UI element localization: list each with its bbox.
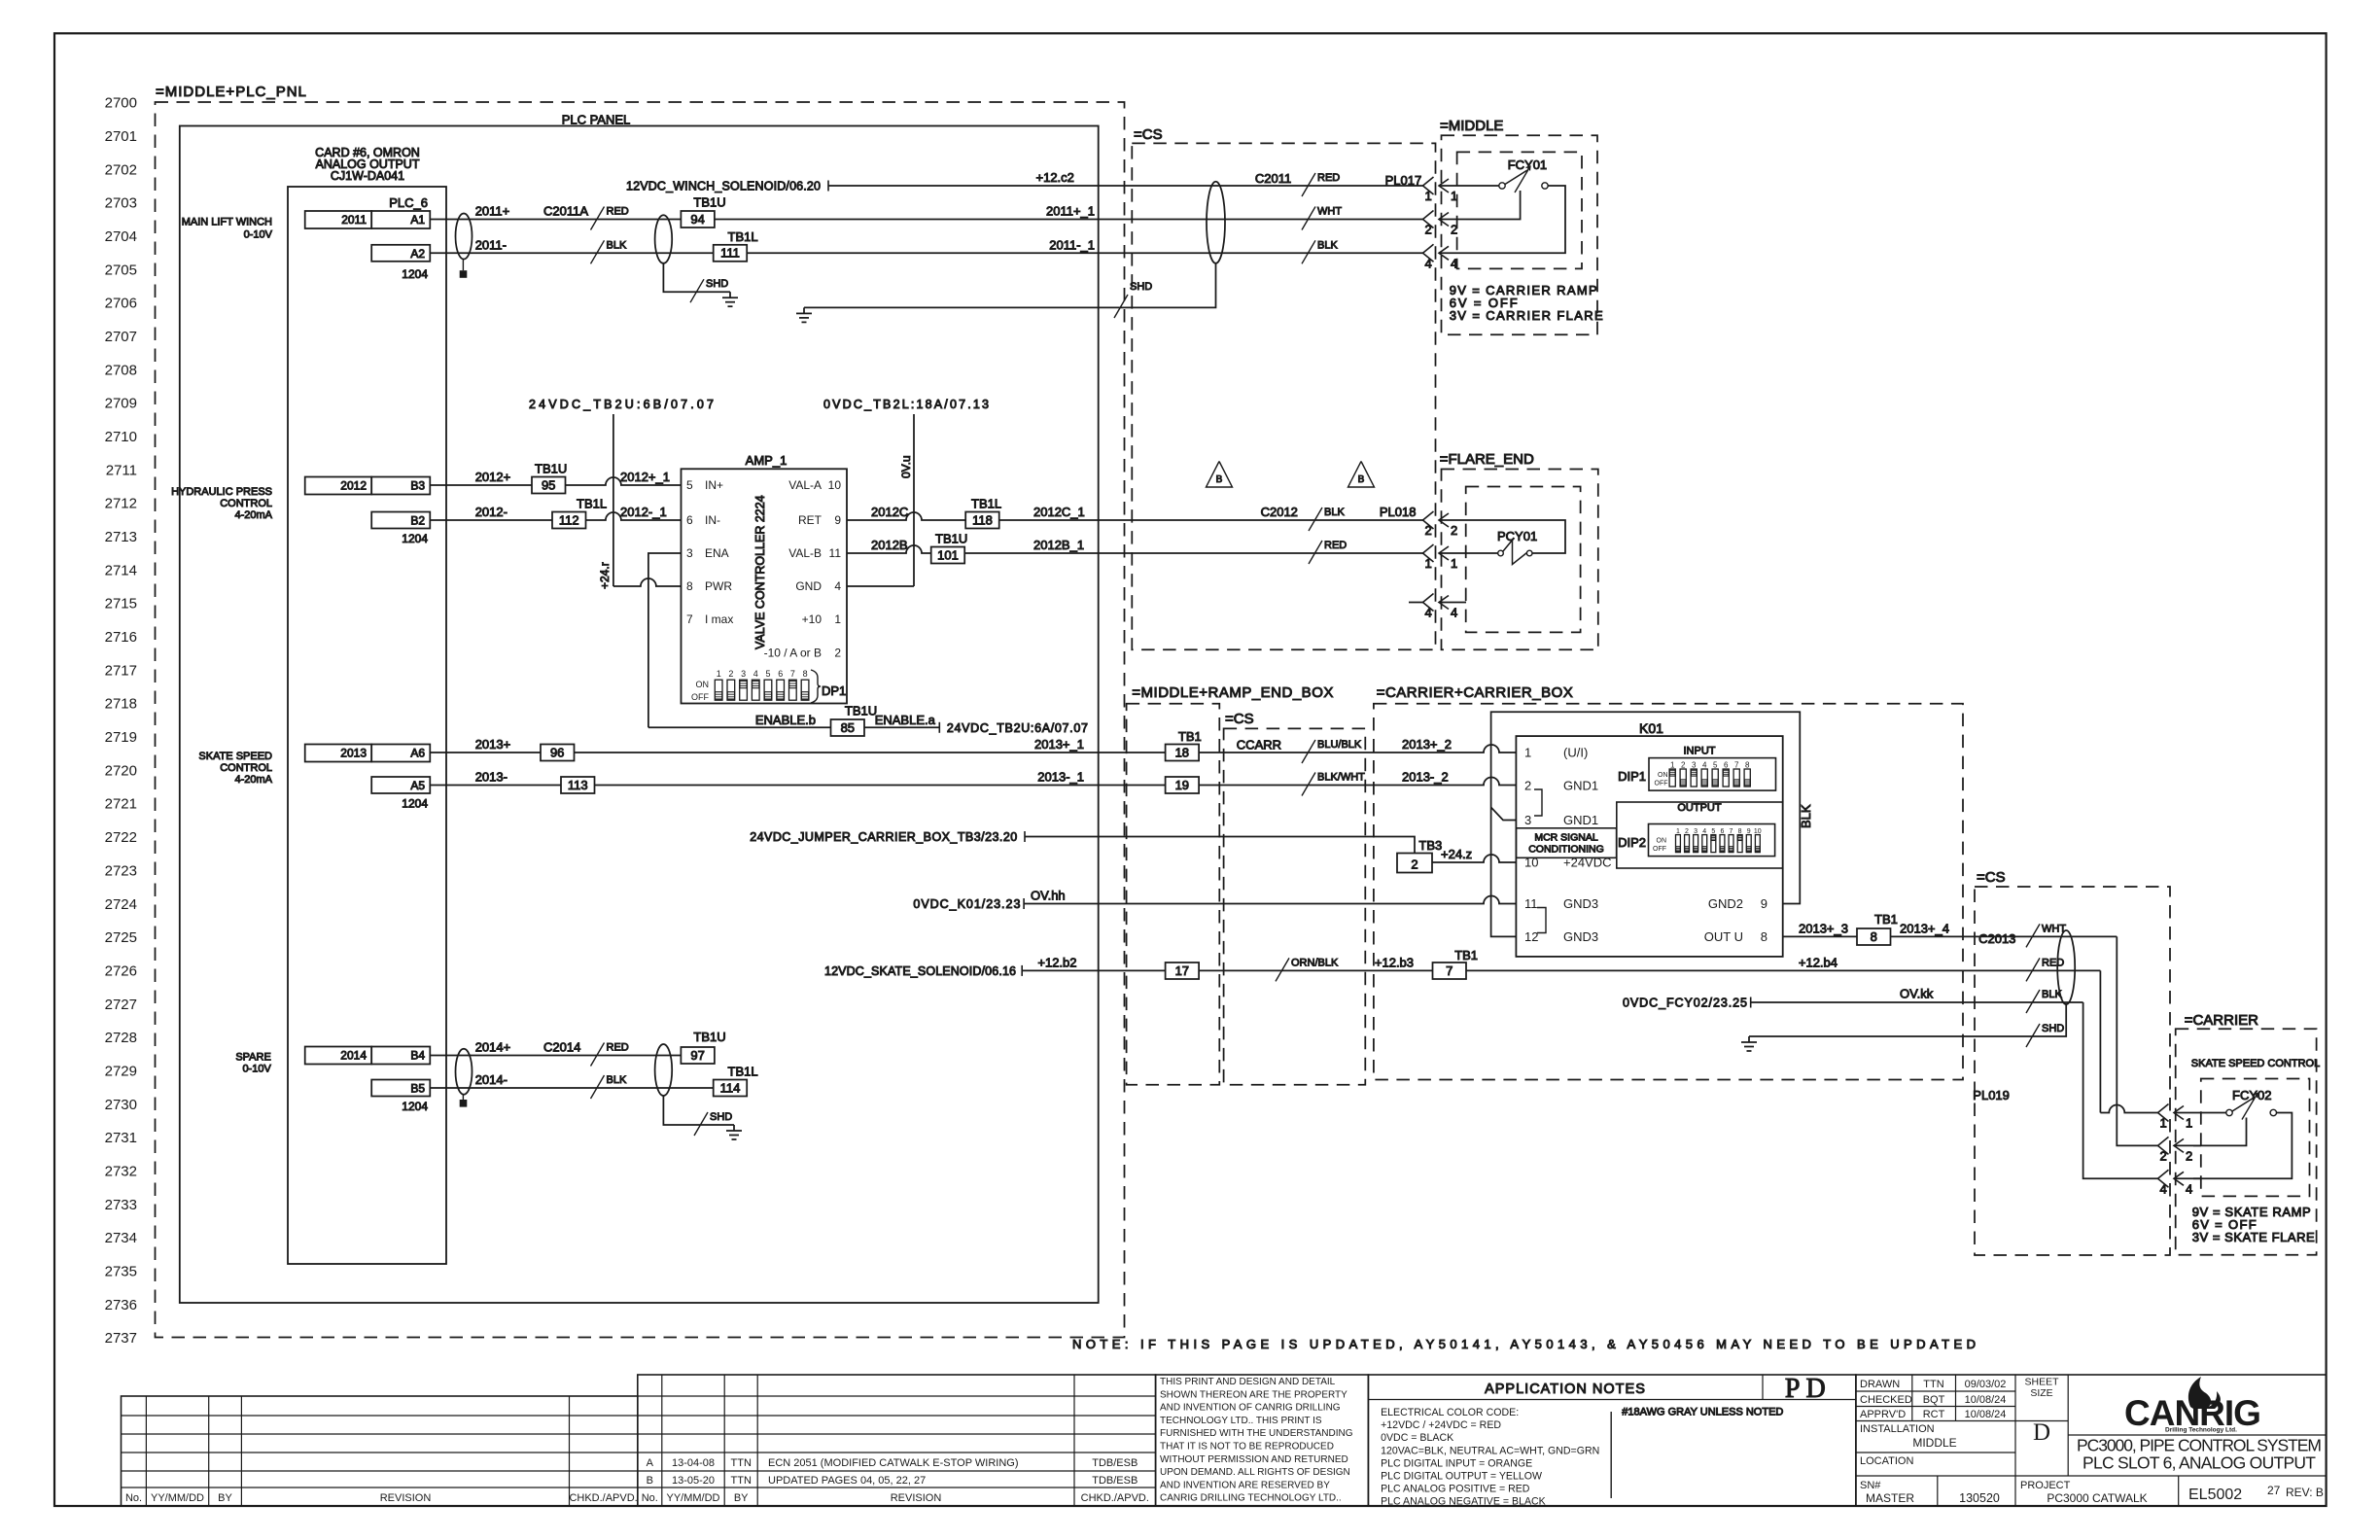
shield drain of C2011 to ground — [804, 263, 1216, 308]
svg-text:ON: ON — [696, 680, 710, 689]
cable oval C2011A at card — [456, 214, 472, 260]
terminal TB1 19 — [1166, 777, 1200, 793]
svg-text:4: 4 — [2186, 1181, 2192, 1196]
svg-text:SHD: SHD — [710, 1111, 732, 1123]
PLC pin box B5 — [371, 1080, 430, 1097]
wire OUT U 2013+_3 to TB1 8 — [1783, 935, 2117, 937]
svg-text:2013-_2: 2013-_2 — [1402, 770, 1449, 785]
dashed box =CARRIER — [2176, 1029, 2317, 1255]
svg-text:2728: 2728 — [105, 1030, 137, 1046]
svg-text:4-20mA: 4-20mA — [234, 774, 272, 786]
svg-text:1: 1 — [717, 669, 721, 679]
BLK branch to pin3 — [1491, 807, 1517, 820]
svg-text:+12.c2: +12.c2 — [1036, 170, 1074, 185]
svg-text:SKATE SPEED CONTROL: SKATE SPEED CONTROL — [2191, 1058, 2320, 1069]
svg-text:18: 18 — [1175, 745, 1189, 759]
svg-text:3: 3 — [1524, 813, 1531, 827]
PLC pin box A6 — [371, 745, 430, 762]
colour tag SHD on C2013 — [2026, 1024, 2040, 1047]
svg-text:PC3000 CATWALK: PC3000 CATWALK — [2047, 1491, 2147, 1505]
svg-text:2711: 2711 — [106, 462, 137, 478]
svg-text:1: 1 — [1425, 189, 1432, 203]
svg-text:1: 1 — [1451, 189, 1457, 203]
svg-text:RED: RED — [607, 1042, 629, 1054]
svg-text:BLK: BLK — [1799, 804, 1813, 828]
svg-text:TB1U: TB1U — [693, 1030, 725, 1044]
svg-text:#18AWG GRAY UNLESS NOTED: #18AWG GRAY UNLESS NOTED — [1622, 1407, 1783, 1418]
svg-text:19: 19 — [1175, 778, 1189, 792]
svg-text:OFF: OFF — [691, 692, 709, 702]
svg-text:SIZE: SIZE — [2030, 1387, 2052, 1399]
svg-text:95: 95 — [542, 477, 555, 492]
svg-text:INPUT: INPUT — [1684, 746, 1716, 757]
svg-text:PROJECT: PROJECT — [2020, 1480, 2071, 1491]
svg-text:PWR: PWR — [705, 579, 732, 593]
svg-text:OV.hh: OV.hh — [1031, 889, 1066, 903]
svg-text:2732: 2732 — [105, 1164, 137, 1180]
svg-text:2013+_1: 2013+_1 — [1034, 737, 1084, 752]
svg-text:2012+: 2012+ — [475, 470, 511, 484]
svg-text:TDB/ESB: TDB/ESB — [1092, 1475, 1137, 1487]
svg-text:INSTALLATION: INSTALLATION — [1860, 1423, 1935, 1435]
svg-text:5: 5 — [686, 478, 693, 492]
wire 2012- B2 to AMP IN- — [430, 512, 681, 520]
svg-text:101: 101 — [937, 547, 959, 562]
svg-text:5: 5 — [1713, 761, 1718, 770]
wire RED down to PL019 pin1 — [2099, 970, 2101, 1112]
dashed box =MIDDLE+PLC_PNL — [156, 102, 1125, 1338]
svg-text:2702: 2702 — [105, 161, 137, 178]
svg-text:2012B: 2012B — [871, 538, 908, 552]
colour tag BLK on C2011A — [591, 240, 605, 263]
svg-text:GND1: GND1 — [1563, 779, 1598, 793]
svg-text:MASTER: MASTER — [1866, 1491, 1914, 1505]
svg-text:3: 3 — [1692, 761, 1697, 770]
svg-text:2013+_2: 2013+_2 — [1402, 737, 1452, 752]
svg-text:2736: 2736 — [105, 1297, 137, 1313]
svg-text:ORN/BLK: ORN/BLK — [1291, 957, 1339, 968]
wire FCY01 throw to pin4 — [1466, 186, 1565, 253]
svg-text:2718: 2718 — [105, 696, 137, 713]
svg-text:THIS PRINT AND DESIGN AND DETA: THIS PRINT AND DESIGN AND DETAIL — [1160, 1377, 1336, 1387]
PLC pin box B3 — [371, 477, 430, 495]
svg-text:No.: No. — [642, 1492, 658, 1504]
dashed box =CS right — [1975, 887, 2170, 1255]
svg-text:2: 2 — [2186, 1148, 2192, 1163]
svg-text:ON: ON — [1657, 837, 1667, 844]
svg-text:=CS: =CS — [1134, 126, 1163, 143]
svg-text:GND1: GND1 — [1563, 813, 1598, 827]
svg-text:(U/I): (U/I) — [1563, 746, 1588, 760]
svg-text:1: 1 — [1524, 746, 1531, 760]
svg-text:A2: A2 — [410, 247, 425, 261]
svg-text:TB1U: TB1U — [535, 462, 567, 476]
svg-text:MCR SIGNAL: MCR SIGNAL — [1534, 832, 1598, 844]
svg-text:2722: 2722 — [105, 829, 137, 846]
svg-text:2: 2 — [2160, 1148, 2167, 1163]
svg-text:CHECKED: CHECKED — [1860, 1394, 1912, 1406]
svg-text:2708: 2708 — [105, 362, 137, 378]
svg-text:TTN: TTN — [1923, 1379, 1943, 1390]
colour tag RED on C2014 — [591, 1043, 605, 1067]
svg-text:2706: 2706 — [105, 296, 137, 312]
dashed box =CS upper — [1132, 143, 1435, 649]
svg-text:AND INVENTION OF CANRIG DRILLI: AND INVENTION OF CANRIG DRILLING — [1160, 1403, 1341, 1414]
svg-text:2714: 2714 — [105, 562, 137, 578]
wire ENABLE.b to TB1U 85 — [648, 726, 831, 728]
terminal 113 — [561, 777, 595, 793]
svg-text:DRAWN: DRAWN — [1860, 1379, 1900, 1390]
svg-text:BY: BY — [734, 1492, 749, 1504]
svg-text:2012-_1: 2012-_1 — [620, 505, 667, 519]
svg-text:12: 12 — [1524, 929, 1538, 944]
colour tag BLU/BLK — [1302, 740, 1315, 763]
svg-text:PLC ANALOG POSITIVE = RED: PLC ANALOG POSITIVE = RED — [1381, 1484, 1530, 1495]
svg-text:IN+: IN+ — [705, 478, 723, 492]
svg-text:HYDRAULIC PRESS: HYDRAULIC PRESS — [171, 486, 272, 498]
svg-text:1: 1 — [2186, 1116, 2192, 1131]
warning triangle B left — [1207, 462, 1233, 488]
K01 INPUT dip block — [1649, 758, 1776, 791]
svg-text:2012C: 2012C — [871, 505, 908, 519]
shield wire SHD to panel ground — [663, 263, 730, 292]
wire 24VDC jumper to TB3 — [1025, 837, 1415, 854]
svg-text:118: 118 — [972, 512, 993, 527]
wire FCY01 wiper to pin2 — [1466, 191, 1521, 220]
svg-text:AND INVENTION ARE RESERVED BY: AND INVENTION ARE RESERVED BY — [1160, 1480, 1330, 1490]
svg-text:8: 8 — [686, 579, 693, 593]
wire FCY02 wiper to pin2 — [2193, 1118, 2247, 1146]
wire PWR from +24.r — [613, 578, 682, 586]
svg-text:2715: 2715 — [105, 596, 137, 612]
ground symbol for C2013 shield — [1748, 1036, 1750, 1042]
terminal 96 — [541, 745, 575, 761]
svg-text:SPARE: SPARE — [235, 1052, 270, 1064]
svg-text:TECHNOLOGY LTD.. THIS PRINT IS: TECHNOLOGY LTD.. THIS PRINT IS — [1160, 1416, 1322, 1426]
vertical +24.r supply — [612, 414, 614, 586]
dashed box PCY01 enclosure — [1466, 487, 1581, 633]
PLC output channel box 2012 — [305, 477, 372, 495]
svg-text:2724: 2724 — [105, 896, 137, 913]
wire 2013+ A6 to K01 pin1 — [430, 745, 1516, 752]
svg-text:4: 4 — [2160, 1181, 2167, 1196]
svg-text:1: 1 — [1451, 556, 1457, 571]
svg-text:1: 1 — [2160, 1116, 2167, 1131]
svg-text:2014-: 2014- — [475, 1072, 507, 1087]
svg-text:OUTPUT: OUTPUT — [1677, 802, 1722, 814]
svg-text:4: 4 — [1425, 606, 1432, 620]
svg-text:2013+: 2013+ — [475, 737, 511, 752]
svg-text:TB1: TB1 — [1454, 948, 1478, 962]
svg-text:PLC SLOT 6, ANALOG OUTPUT: PLC SLOT 6, ANALOG OUTPUT — [2082, 1453, 2316, 1473]
PLC output channel box 2013 — [305, 745, 372, 762]
svg-text:CONDITIONING: CONDITIONING — [1528, 844, 1604, 856]
svg-text:24VDC_JUMPER_CARRIER_BOX_TB3/2: 24VDC_JUMPER_CARRIER_BOX_TB3/23.20 — [750, 830, 1017, 844]
PLC pin box A5 — [371, 777, 430, 793]
svg-text:EL5002: EL5002 — [2188, 1487, 2242, 1503]
svg-text:+24.r: +24.r — [598, 562, 612, 589]
svg-text:CONTROL: CONTROL — [220, 498, 272, 509]
svg-text:C2012: C2012 — [1261, 505, 1298, 519]
svg-text:11: 11 — [829, 546, 842, 560]
svg-text:DIP2: DIP2 — [1618, 835, 1646, 850]
electrical color code notes — [1381, 1407, 1599, 1508]
svg-text:2705: 2705 — [105, 262, 137, 278]
wire +12.b2 +12.b3 +12.b4 to C2013 — [1022, 969, 2100, 971]
svg-text:B5: B5 — [410, 1082, 425, 1096]
svg-text:TTN: TTN — [731, 1475, 752, 1487]
svg-text:VALVE CONTROLLER 2224: VALVE CONTROLLER 2224 — [753, 495, 767, 649]
svg-text:13-05-20: 13-05-20 — [672, 1475, 715, 1487]
svg-text:120VAC=BLK, NEUTRAL AC=WHT,: 120VAC=BLK, NEUTRAL AC=WHT, GND=GRN — [1381, 1445, 1599, 1456]
svg-text:2013+_3: 2013+_3 — [1799, 921, 1848, 935]
svg-text:09/03/02: 09/03/02 — [1965, 1379, 2007, 1390]
svg-text:APPLICATION NOTES: APPLICATION NOTES — [1485, 1382, 1646, 1397]
svg-text:BLK: BLK — [1324, 507, 1345, 518]
svg-text:2: 2 — [1451, 523, 1457, 538]
svg-text:CANRIG DRILLING TECHNOLOGY LTD: CANRIG DRILLING TECHNOLOGY LTD.. — [1160, 1493, 1342, 1504]
svg-text:IN-: IN- — [705, 513, 720, 527]
svg-text:2704: 2704 — [105, 228, 137, 245]
svg-text:2012+_1: 2012+_1 — [620, 470, 670, 484]
svg-text:No.: No. — [125, 1492, 142, 1504]
svg-text:4: 4 — [1451, 606, 1457, 620]
svg-text:GND3: GND3 — [1563, 929, 1598, 944]
svg-text:MIDDLE: MIDDLE — [1912, 1436, 1956, 1450]
svg-text:0VDC = BLACK: 0VDC = BLACK — [1381, 1432, 1453, 1444]
PLC output channel box 2011 — [305, 211, 372, 228]
PLC pin box B2 — [371, 512, 430, 529]
terminal 17 — [1166, 962, 1200, 979]
cable oval C2014 at card — [456, 1049, 472, 1095]
svg-text:PL017: PL017 — [1385, 173, 1422, 188]
svg-text:WITHOUT PERMISSION AND RETURNE: WITHOUT PERMISSION AND RETURNED — [1160, 1454, 1348, 1465]
dashed box =CS middle — [1224, 728, 1366, 1084]
svg-text:=CS: =CS — [1977, 869, 2006, 886]
svg-text:BY: BY — [218, 1492, 232, 1504]
svg-text:96: 96 — [550, 745, 564, 759]
svg-text:2707: 2707 — [105, 329, 137, 345]
svg-text:2012: 2012 — [340, 479, 367, 493]
wire VAL-B 2012B to PL018 pin1 — [847, 545, 1423, 553]
svg-text:2734: 2734 — [105, 1230, 137, 1246]
ground symbol row 2014 — [733, 1125, 735, 1131]
svg-text:PLC DIGITAL INPUT = ORANGE: PLC DIGITAL INPUT = ORANGE — [1381, 1457, 1532, 1469]
svg-text:APPRV'D: APPRV'D — [1860, 1409, 1906, 1420]
svg-text:+12.b3: +12.b3 — [1375, 955, 1414, 969]
svg-text:2: 2 — [834, 646, 841, 659]
svg-text:8: 8 — [1761, 929, 1767, 944]
wire 2011- from A2 to PL017 pin4 — [430, 252, 1422, 254]
revision table left — [122, 1396, 638, 1506]
svg-text:7: 7 — [790, 669, 795, 679]
svg-text:RED: RED — [1324, 540, 1347, 551]
svg-text:BLK: BLK — [607, 239, 627, 251]
svg-text:PCY01: PCY01 — [1497, 529, 1537, 543]
line number column 2700-2737 — [105, 95, 137, 1347]
svg-text:WHT: WHT — [2042, 923, 2066, 934]
svg-text:7: 7 — [1446, 963, 1452, 978]
svg-text:4: 4 — [834, 579, 841, 593]
svg-text:REVISION: REVISION — [891, 1492, 942, 1504]
application notes box — [1368, 1375, 1856, 1506]
svg-text:ENABLE.a: ENABLE.a — [875, 713, 936, 727]
svg-text:10/08/24: 10/08/24 — [1965, 1394, 2007, 1406]
svg-text:ECN 2051 (MODIFIED CATWALK E-S: ECN 2051 (MODIFIED CATWALK E-STOP WIRING… — [768, 1457, 1019, 1469]
svg-text:2717: 2717 — [105, 662, 137, 679]
svg-text:=FLARE_END: =FLARE_END — [1440, 451, 1534, 468]
svg-text:114: 114 — [720, 1080, 741, 1095]
colour tag BLK/WHT — [1302, 773, 1315, 796]
svg-text:RED: RED — [607, 206, 629, 218]
svg-text:BLK: BLK — [1317, 239, 1338, 251]
wire PCY01 to pin2 loop — [1466, 520, 1565, 553]
cable oval at TB1U 97 — [655, 1044, 673, 1096]
svg-text:0VDC_TB2L:18A/07.13: 0VDC_TB2L:18A/07.13 — [823, 398, 989, 411]
svg-text:BLK: BLK — [607, 1074, 627, 1086]
svg-text:0VDC_K01/23.23: 0VDC_K01/23.23 — [913, 897, 1020, 911]
svg-text:2729: 2729 — [105, 1064, 137, 1080]
svg-text:GND2: GND2 — [1708, 896, 1743, 911]
svg-text:+12VDC / +24VDC = RED: +12VDC / +24VDC = RED — [1381, 1419, 1501, 1431]
svg-text:9: 9 — [1761, 896, 1767, 911]
svg-text:2: 2 — [1524, 779, 1531, 793]
svg-text:C2011A: C2011A — [543, 204, 588, 219]
svg-text:2727: 2727 — [105, 997, 137, 1013]
svg-text:TB3: TB3 — [1418, 838, 1442, 853]
svg-text:+12.b4: +12.b4 — [1799, 955, 1837, 969]
svg-text:5: 5 — [765, 669, 770, 679]
valve amplifier AMP_1 box — [682, 469, 848, 703]
svg-text:OUT U: OUT U — [1704, 929, 1743, 944]
colour tag RED on C2011A — [591, 207, 605, 230]
svg-text:111: 111 — [720, 246, 740, 261]
svg-text:PLC DIGITAL OUTPUT = YELLO: PLC DIGITAL OUTPUT = YELLOW — [1381, 1471, 1542, 1483]
SN row dividers — [1937, 1476, 1939, 1506]
cable oval C2011 in =CS — [1207, 182, 1225, 263]
cable shield dot at card row2014 — [460, 1100, 468, 1107]
svg-text:GND: GND — [795, 579, 822, 593]
svg-text:TB1L: TB1L — [971, 497, 1001, 511]
svg-text:VAL-A: VAL-A — [788, 478, 822, 492]
shield wire of C2013 to ground — [1749, 1004, 2066, 1036]
svg-text:C2014: C2014 — [543, 1040, 580, 1055]
svg-text:=MIDDLE+PLC_PNL: =MIDDLE+PLC_PNL — [156, 84, 307, 100]
svg-text:4: 4 — [753, 669, 758, 679]
svg-text:UPON DEMAND. ALL RIGHTS OF DES: UPON DEMAND. ALL RIGHTS OF DESIGN — [1160, 1467, 1350, 1478]
cable oval C2013 — [2057, 930, 2075, 1004]
svg-text:=MIDDLE: =MIDDLE — [1440, 118, 1503, 134]
svg-text:C2011: C2011 — [1255, 171, 1291, 186]
svg-text:2: 2 — [1451, 223, 1457, 237]
svg-text:BLK: BLK — [2042, 989, 2062, 1000]
svg-text:B2: B2 — [410, 514, 425, 528]
svg-text:SN#: SN# — [1860, 1480, 1881, 1491]
wire RET 2012C to PL018 pin2 — [847, 512, 1423, 520]
svg-text:0V.u: 0V.u — [899, 455, 913, 478]
dashed box =MIDDLE — [1442, 135, 1598, 334]
svg-text:1204: 1204 — [402, 267, 428, 281]
svg-text:ENA: ENA — [705, 546, 729, 560]
svg-text:1204: 1204 — [402, 1100, 428, 1113]
wire 2014- to TB1L 114 — [430, 1087, 713, 1089]
svg-text:B: B — [647, 1475, 653, 1487]
svg-text:3: 3 — [686, 546, 693, 560]
svg-text:2012-: 2012- — [475, 505, 507, 519]
svg-text:8: 8 — [803, 669, 808, 679]
svg-text:CONTROL: CONTROL — [220, 762, 272, 774]
colour tag ORN/BLK — [1276, 958, 1289, 981]
svg-text:0VDC_FCY02/23.25: 0VDC_FCY02/23.25 — [1623, 997, 1747, 1010]
svg-text:2013-: 2013- — [475, 770, 507, 785]
svg-text:2: 2 — [1425, 523, 1432, 538]
svg-text:2725: 2725 — [105, 929, 137, 946]
svg-text:CHKD./APVD.: CHKD./APVD. — [569, 1492, 637, 1504]
svg-text:0-10V: 0-10V — [244, 229, 273, 241]
wire +12.c2 to PL017 pin1 — [828, 185, 1423, 187]
wire 2013- A5 to K01 pin2 — [430, 778, 1516, 786]
svg-text:1204: 1204 — [402, 797, 428, 811]
svg-text:OFF: OFF — [1653, 846, 1666, 853]
PLC pin box A2 — [371, 245, 430, 262]
wire GND to 0V.u — [847, 585, 914, 587]
svg-text:2013-_1: 2013-_1 — [1037, 770, 1084, 785]
svg-text:VAL-B: VAL-B — [788, 546, 822, 560]
wire 2012+ B3 to AMP IN+ — [430, 477, 681, 485]
dashed box FCY01 enclosure — [1457, 152, 1582, 268]
svg-text:2014+: 2014+ — [475, 1040, 511, 1055]
svg-text:LOCATION: LOCATION — [1860, 1455, 1913, 1467]
svg-text:ON: ON — [1658, 772, 1668, 779]
svg-text:2735: 2735 — [105, 1264, 137, 1280]
svg-text:C2013: C2013 — [1978, 931, 2015, 946]
svg-text:DIP1: DIP1 — [1618, 769, 1646, 784]
svg-text:RED: RED — [1317, 172, 1340, 184]
MCR SIGNAL CONDITIONING box — [1516, 828, 1616, 858]
svg-text:YY/MM/DD: YY/MM/DD — [667, 1492, 720, 1504]
svg-text:DP1: DP1 — [822, 683, 846, 698]
divider before 18AWG note — [1610, 1412, 1612, 1498]
svg-text:+24.z: +24.z — [1441, 847, 1472, 861]
dashed box =FLARE_END — [1442, 470, 1598, 650]
svg-text:2: 2 — [1411, 857, 1417, 871]
svg-text:PL018: PL018 — [1380, 505, 1417, 519]
svg-text:SHD: SHD — [706, 278, 728, 290]
svg-text:2731: 2731 — [105, 1130, 137, 1146]
warning triangle B right — [1348, 462, 1375, 488]
wire BLK loop GND2 pin9 to pins 3 and 12 — [1491, 712, 1801, 936]
svg-text:10/08/24: 10/08/24 — [1965, 1409, 2007, 1420]
svg-text:24VDC_TB2U:6A/07.07: 24VDC_TB2U:6A/07.07 — [947, 721, 1088, 735]
svg-text:8: 8 — [1745, 761, 1750, 770]
relay K01 signal conditioner box — [1516, 736, 1782, 957]
svg-text:B: B — [1358, 474, 1365, 485]
svg-text:4: 4 — [1451, 256, 1457, 270]
svg-text:2013: 2013 — [340, 747, 367, 760]
PD stamp — [1762, 1375, 1764, 1400]
logo flame — [2188, 1377, 2221, 1409]
svg-text:REVISION: REVISION — [380, 1492, 432, 1504]
svg-text:SHD: SHD — [1130, 281, 1152, 293]
K01 OUTPUT dip block — [1617, 802, 1783, 868]
title block drawn/checked rows — [1856, 1375, 2327, 1506]
svg-text:PC3000, PIPE CONTROL SYSTEM: PC3000, PIPE CONTROL SYSTEM — [2077, 1436, 2322, 1455]
svg-text:7: 7 — [686, 612, 693, 626]
title text PC3000 PIPE CONTROL SYSTEM — [2020, 1436, 2324, 1506]
svg-text:2012C_1: 2012C_1 — [1033, 505, 1085, 519]
bracket pins 11-12 — [1537, 908, 1546, 933]
solid box PLC PANEL — [180, 126, 1099, 1304]
